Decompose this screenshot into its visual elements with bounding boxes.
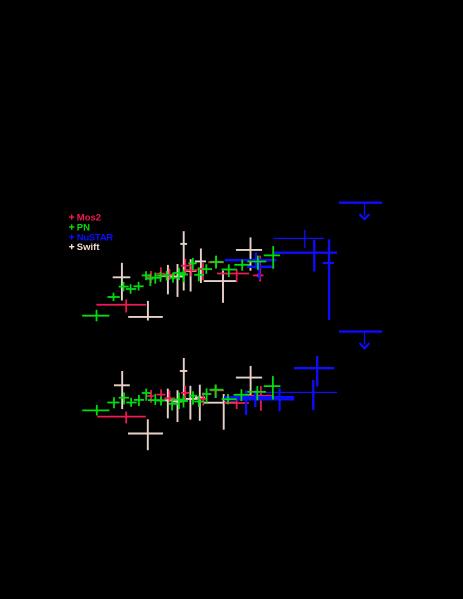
Swift point TW3 bbox=[162, 265, 174, 294]
PN point BG19 bbox=[264, 376, 281, 399]
Mos2 point TR8 bbox=[208, 256, 224, 268]
legend Swift bbox=[69, 244, 74, 249]
PN point BG2 bbox=[107, 397, 119, 408]
NuSTAR point BN3 bbox=[260, 388, 337, 411]
PN point BG17 bbox=[234, 389, 250, 401]
Mos2 point TR5 bbox=[181, 259, 192, 276]
NuSTAR point TN2 bbox=[247, 258, 274, 279]
NuSTAR point TN5 bbox=[323, 239, 334, 320]
Swift point BW2 bbox=[128, 419, 163, 450]
Swift point BW5 bbox=[180, 358, 188, 401]
Mos2 point BR8 bbox=[224, 397, 249, 409]
Swift point TW4 bbox=[172, 264, 183, 297]
legend PN bbox=[69, 224, 74, 229]
Swift point TW9 bbox=[236, 237, 262, 270]
Swift point TW2 bbox=[128, 301, 163, 321]
PN point BG13 bbox=[194, 396, 204, 407]
PN point TG6 bbox=[142, 271, 150, 280]
PN point TG14 bbox=[188, 258, 196, 270]
PN point BG14 bbox=[202, 388, 211, 402]
Mos2 point BR3 bbox=[157, 389, 166, 403]
Mos2 point TR6 bbox=[185, 267, 197, 277]
PN point BG4 bbox=[126, 398, 136, 407]
PN point TG19 bbox=[234, 260, 249, 271]
NuSTAR point TN3 bbox=[273, 230, 324, 248]
PN point BG5 bbox=[134, 395, 144, 406]
PN point TG11 bbox=[170, 273, 179, 283]
PN point TG2 bbox=[108, 293, 120, 301]
PN point BG6 bbox=[142, 389, 151, 401]
Mos2 point BR1 bbox=[97, 412, 146, 424]
Swift point BW4 bbox=[172, 390, 182, 422]
PN point TG3 bbox=[119, 282, 129, 292]
PN point TG4 bbox=[126, 284, 136, 294]
Swift point TW8 bbox=[204, 271, 238, 303]
Swift point TW6 bbox=[185, 259, 197, 291]
PN point BG3 bbox=[119, 393, 129, 405]
PN point BG12 bbox=[189, 391, 197, 404]
PN point BG16 bbox=[222, 394, 237, 404]
Swift point BW9 bbox=[236, 366, 262, 399]
PN point BG1 bbox=[82, 405, 109, 416]
Mos2 point TR2 bbox=[146, 271, 154, 283]
Mos2 point TR9 bbox=[217, 269, 249, 282]
PN point BG11 bbox=[178, 395, 188, 408]
NuSTAR point BN2 bbox=[224, 390, 294, 407]
NuSTAR point TN4 bbox=[273, 240, 337, 271]
PN point TG1 bbox=[82, 310, 109, 322]
Mos2 point BR4 bbox=[164, 390, 175, 402]
Swift point TW5 bbox=[180, 231, 187, 290]
Swift point TW1 bbox=[113, 263, 131, 301]
Mos2 point TR1 bbox=[96, 300, 146, 313]
NuSTAR upper limit UL2 bbox=[339, 332, 382, 349]
PN point TG7 bbox=[147, 274, 154, 286]
Mos2 point TR3 bbox=[156, 267, 165, 280]
NuSTAR point BN1 bbox=[224, 390, 294, 415]
Mos2 point TR11 bbox=[253, 274, 264, 277]
NuSTAR point BN4 bbox=[312, 380, 314, 410]
Mos2 point BR6 bbox=[198, 393, 208, 406]
NuSTAR point TN1 bbox=[225, 253, 277, 269]
PN point TG8 bbox=[152, 273, 160, 284]
PN point BG15 bbox=[209, 385, 223, 399]
PN point TG17 bbox=[210, 256, 223, 269]
NuSTAR upper limit UL1 bbox=[339, 203, 382, 220]
Mos2 point BR9 bbox=[247, 386, 272, 411]
PN point TG10 bbox=[164, 271, 170, 281]
Swift point BW6 bbox=[184, 386, 197, 420]
PN point TG21 bbox=[264, 246, 280, 269]
NuSTAR point BN5 bbox=[294, 356, 334, 387]
Swift point BW8 bbox=[204, 394, 236, 430]
PN point BG10 bbox=[173, 393, 185, 410]
PN point TG12 bbox=[173, 268, 185, 280]
Mos2 point TR7 bbox=[197, 263, 207, 280]
PN point BG8 bbox=[157, 397, 166, 406]
Swift point TW7 bbox=[195, 249, 206, 284]
legend NuSTAR bbox=[69, 234, 74, 239]
Mos2 point BR2 bbox=[146, 390, 154, 403]
PN point TG18 bbox=[222, 264, 237, 277]
PN point TG5 bbox=[134, 282, 144, 291]
PN point BG18 bbox=[247, 386, 266, 400]
Mos2 point BR7 bbox=[210, 385, 224, 399]
PN point TG15 bbox=[194, 267, 204, 281]
PN point TG20 bbox=[247, 256, 266, 270]
PN point TG16 bbox=[202, 264, 212, 274]
PN point TG13 bbox=[178, 270, 188, 283]
Swift point BW3 bbox=[162, 389, 173, 419]
svg-text:Swift: Swift bbox=[77, 242, 101, 253]
Mos2 point TR10 bbox=[247, 256, 272, 282]
legend Mos2 bbox=[69, 215, 74, 220]
Swift point BW7 bbox=[195, 385, 205, 421]
PN point BG7 bbox=[148, 394, 160, 405]
PN point BG9 bbox=[169, 399, 178, 411]
Swift point BW1 bbox=[114, 371, 130, 409]
Mos2 point TR4 bbox=[165, 269, 175, 280]
PN point TG9 bbox=[156, 272, 166, 282]
Mos2 point BR5 bbox=[181, 386, 189, 401]
